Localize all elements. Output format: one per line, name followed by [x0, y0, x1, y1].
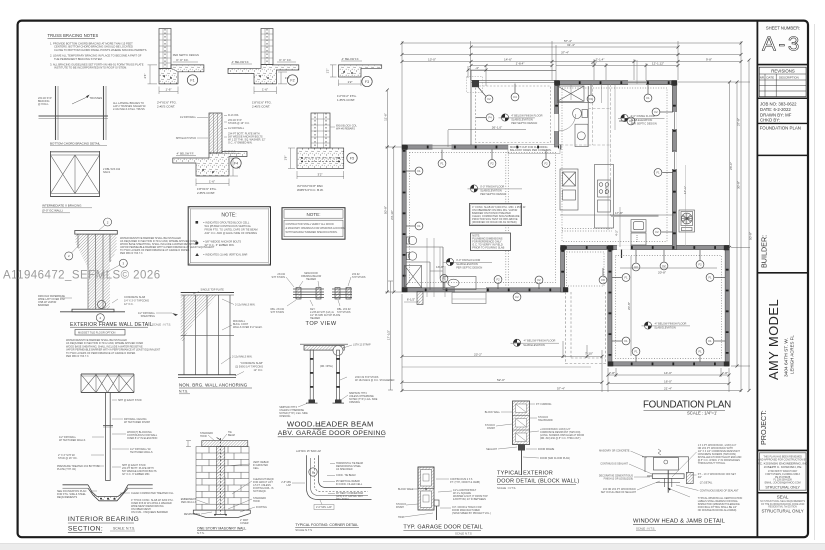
svg-text:PER SEPTIC DESIGN: PER SEPTIC DESIGN	[456, 266, 482, 270]
svg-text:= INDICATES (1) (#5) VERTICAL: = INDICATES (1) (#5) VERTICAL BAR	[203, 253, 248, 257]
svg-text:2 #5'S CONT.: 2 #5'S CONT.	[252, 105, 270, 109]
corner blocks	[402, 81, 729, 367]
svg-text:O' O" F.F.: O' O" F.F.	[176, 58, 189, 62]
svg-text:TEXTURED WALLS: TEXTURED WALLS	[130, 451, 153, 454]
svg-text:W/1 [#5 BAR CONTINUOUS VERTICA: W/1 [#5 BAR CONTINUOUS VERTICAL	[205, 224, 252, 228]
svg-text:MUDSET TILE FLOOR OPTION: MUDSET TILE FLOOR OPTION	[78, 331, 116, 335]
INTERIOR BEARING SECTION	[57, 374, 174, 533]
svg-text:HEADER: HEADER	[306, 278, 316, 281]
svg-text:SYP STUDS: SYP STUDS	[337, 311, 351, 314]
svg-text:0'-0" FINISH FLOOR: 0'-0" FINISH FLOOR	[631, 114, 655, 118]
right dimension lines	[678, 60, 750, 391]
svg-text:OF THE FLORIDA BUILDING CODE: OF THE FLORIDA BUILDING CODE 2020	[761, 503, 805, 506]
svg-text:W/#5'S 6"O.C. B.W.: W/#5'S 6"O.C. B.W.	[297, 188, 324, 192]
svg-text:A32" O.C. AND @ EACH SIDE OF O: A32" O.C. AND @ EACH SIDE OF OPENING	[205, 231, 258, 235]
svg-text:BLOCK WALL: BLOCK WALL	[485, 411, 501, 414]
svg-text:REVISIONS: REVISIONS	[771, 68, 795, 73]
svg-text:WOOD HEADER BEAM: WOOD HEADER BEAM	[287, 420, 374, 429]
svg-text:1'2": 1'2"	[348, 80, 353, 84]
svg-text:30'-8": 30'-8"	[736, 181, 740, 189]
svg-text:27'-8": 27'-8"	[736, 118, 740, 126]
svg-text:PER SEPTIC DESIGN: PER SEPTIC DESIGN	[511, 121, 537, 125]
svg-text:FINISH: FINISH	[396, 506, 404, 509]
svg-text:CLOSE TO BOTTOM CHORD PANEL PO: CLOSE TO BOTTOM CHORD PANEL POINTS WHERE…	[54, 48, 147, 52]
left dimension lines	[385, 90, 402, 292]
svg-text:37'-4": 37'-4"	[561, 50, 569, 54]
svg-text:RESPONDING: RESPONDING	[184, 513, 200, 516]
svg-text:2'-8": 2'-8"	[722, 371, 728, 375]
svg-text:23'-0": 23'-0"	[729, 162, 733, 170]
svg-text:SCALE : N.T.S.: SCALE : N.T.S.	[152, 323, 171, 327]
svg-text:PER SEPTIC DESIGN: PER SEPTIC DESIGN	[480, 192, 506, 196]
svg-text:COVER: COVER	[240, 522, 249, 525]
svg-text:SET IN FULL BED OF SEALANT: SET IN FULL BED OF SEALANT	[601, 491, 637, 494]
svg-text:23'-2": 23'-2"	[474, 352, 482, 356]
EXTERIOR FRAME WALL DETAIL	[38, 218, 215, 358]
dims left of wall	[186, 441, 225, 497]
svg-text:F3: F3	[365, 80, 369, 84]
svg-text:SLAB ELEVATION: SLAB ELEVATION	[523, 343, 545, 347]
svg-text:SEAL: SEAL	[777, 494, 789, 499]
svg-text:CONC. TIE BEAM: CONC. TIE BEAM	[336, 474, 355, 477]
svg-text:SLAB ELEVATION: SLAB ELEVATION	[456, 262, 478, 266]
svg-text:N.T.S.: N.T.S.	[179, 390, 188, 394]
svg-text:TRUSS BRACING NOTES: TRUSS BRACING NOTES	[48, 33, 99, 38]
svg-text:WITH MANUFACTURERED SPECIFICAT: WITH MANUFACTURERED SPECIFICATIONS.	[286, 231, 338, 234]
TRUSS BRACING NOTES	[48, 33, 148, 70]
svg-text:CONTRACTOR SHALL VERIFY ALL WO: CONTRACTOR SHALL VERIFY ALL WOOD	[286, 223, 334, 226]
interior dims	[430, 130, 717, 271]
svg-text:20'-8": 20'-8"	[627, 302, 631, 310]
svg-text:32" O.C. 6" EMBED MIN.: 32" O.C. 6" EMBED MIN.	[122, 473, 150, 476]
svg-text:PER FBC R 703.7.3: PER FBC R 703.7.3	[120, 252, 143, 255]
kitchen/east fixtures	[560, 165, 659, 246]
svg-text:DOOR DETAIL (BLOCK WALL): DOOR DETAIL (BLOCK WALL)	[497, 479, 579, 485]
porch outline	[471, 70, 556, 147]
bottom dimension tiers	[402, 294, 741, 392]
svg-text:11'-6": 11'-6"	[383, 113, 387, 121]
svg-text:O.C., 6" EMBED MIN.: O.C., 6" EMBED MIN.	[228, 142, 253, 145]
svg-text:THE PERMANENT BRACING SYSTEM.: THE PERMANENT BRACING SYSTEM.	[54, 57, 103, 61]
garage west wall	[608, 248, 612, 367]
svg-text:NOTE:: NOTE:	[306, 212, 320, 217]
svg-text:NR.: NR.	[760, 76, 765, 80]
svg-text:SCALE : 1/4"=1': SCALE : 1/4"=1'	[687, 411, 717, 416]
svg-text:13'-8": 13'-8"	[436, 265, 444, 269]
svg-text:A-3: A-3	[762, 33, 802, 56]
svg-text:MASONRY OR CONCRETE: MASONRY OR CONCRETE	[599, 450, 630, 453]
svg-text:THROUGHOUT TYPICAL: THROUGHOUT TYPICAL	[698, 462, 726, 465]
svg-text:INSTITUTE TO BE INCORPORATED I: INSTITUTE TO BE INCORPORATED INTO ROOF S…	[54, 66, 127, 70]
svg-text:TOP VIEW: TOP VIEW	[306, 321, 337, 327]
footing detail F4	[173, 113, 266, 195]
svg-text:F2: F2	[290, 79, 294, 83]
svg-text:B: B	[312, 470, 314, 474]
svg-text:SPH @ EACH STUD: SPH @ EACH STUD	[118, 399, 142, 402]
svg-text:REQUIREMENTS: REQUIREMENTS	[57, 496, 77, 499]
svg-text:BUILDER:: BUILDER:	[760, 235, 769, 268]
svg-text:STUD @ 16" OC.: STUD @ 16" OC.	[58, 457, 78, 460]
svg-text:MIN. STEEL: MIN. STEEL	[336, 498, 350, 501]
svg-text:AS SPECIFIED: AS SPECIFIED	[336, 468, 353, 471]
paper right scan line	[814, 24, 816, 540]
svg-text:SEALANT: SEALANT	[486, 448, 497, 451]
svg-text:FINISH: FINISH	[487, 427, 495, 430]
svg-text:AMY MODEL: AMY MODEL	[766, 299, 781, 380]
svg-text:SYP STUDS: SYP STUDS	[270, 311, 284, 314]
footing detail F2	[228, 29, 299, 109]
svg-text:1'8": 1'8"	[284, 156, 288, 161]
detail reference circles	[406, 85, 725, 362]
west wing south wall	[402, 288, 568, 293]
svg-text:TRIM: TRIM	[398, 516, 404, 519]
svg-text:SCALE N.T.S: SCALE N.T.S	[295, 528, 312, 532]
svg-text:& BOTTOM, 24" IN BETWEEN: & BOTTOM, 24" IN BETWEEN	[453, 498, 486, 501]
svg-text:PRIOR TO POURING SLAB: PRIOR TO POURING SLAB	[472, 246, 504, 250]
footing detail F3	[326, 57, 382, 102]
svg-text:-4" BELOW F.F.: -4" BELOW F.F.	[176, 152, 194, 156]
svg-text:NAILS: NAILS	[103, 171, 111, 174]
svg-text:ON 6 MIL. VISQUEEN BARRIER: ON 6 MIL. VISQUEEN BARRIER	[131, 511, 168, 514]
svg-text:P.T. - 1X 4" WOOD BUCK OFF SET: P.T. - 1X 4" WOOD BUCK OFF SET	[698, 473, 737, 476]
svg-text:50'-8": 50'-8"	[748, 232, 752, 240]
svg-text:24'-10": 24'-10"	[390, 210, 394, 220]
footing dashed insets	[410, 88, 722, 359]
TITLE BLOCK	[757, 21, 808, 538]
svg-text:FOUNDATION PLAN: FOUNDATION PLAN	[760, 126, 801, 131]
svg-text:F4: F4	[234, 162, 238, 166]
brick wall courses	[196, 447, 249, 511]
svg-text:PER SEPTIC DESIGN: PER SEPTIC DESIGN	[173, 53, 199, 57]
FOUNDATION PLAN	[383, 39, 752, 416]
west wing north wall	[402, 145, 561, 150]
svg-text:DATE: 6-2-2022: DATE: 6-2-2022	[760, 107, 791, 112]
svg-text:HEADER: HEADER	[310, 317, 320, 320]
svg-text:= 5/8" WEDGE ANCHOR BOLTS: = 5/8" WEDGE ANCHOR BOLTS	[203, 240, 241, 244]
WINDOW HEAD &amp; JAMB DETAIL	[599, 444, 743, 531]
svg-text:N.T.S.: N.T.S.	[197, 531, 205, 535]
svg-text:SYP STUDS: SYP STUDS	[271, 276, 285, 279]
svg-text:2-12d NAILS MIN.: 2-12d NAILS MIN.	[232, 356, 253, 359]
svg-text:1'-6": 1'-6"	[262, 88, 268, 92]
WOOD HEADER BEAM detail	[278, 344, 395, 437]
svg-text:(2") DETAIL: (2") DETAIL	[700, 482, 713, 485]
svg-text:F1: F1	[190, 79, 194, 83]
svg-text:P.T. FURRING: P.T. FURRING	[536, 403, 552, 406]
AC pad	[679, 165, 695, 246]
svg-text:14'-0": 14'-0"	[664, 371, 672, 375]
svg-text:OPENING: OPENING	[349, 401, 360, 404]
svg-text:W/ TEXTURED WALLS: W/ TEXTURED WALLS	[59, 439, 86, 442]
svg-text:3/4": 3/4"	[698, 476, 702, 479]
svg-text:SYP STUDS: SYP STUDS	[352, 276, 366, 279]
svg-text:1'2": 1'2"	[326, 69, 330, 74]
NOTE box 1	[188, 207, 270, 265]
svg-text:P.T. (TYP., FRONT & JAMB): P.T. (TYP., FRONT & JAMB)	[450, 481, 480, 484]
mudset note on wall	[508, 145, 560, 154]
svg-text:17'-1": 17'-1"	[683, 186, 687, 194]
svg-text:(DR. OPNL): (DR. OPNL)	[320, 365, 333, 368]
svg-text:PLATE (TYP. #2): PLATE (TYP. #2)	[57, 468, 76, 471]
svg-text:SECTION:: SECTION:	[68, 526, 103, 533]
svg-text:1'-6": 1'-6"	[166, 88, 172, 92]
svg-text:1 #5'S CONT.: 1 #5'S CONT.	[337, 98, 355, 102]
svg-text:BARRIER: BARRIER	[38, 304, 49, 307]
south wall east wing / garage north wall	[561, 245, 730, 258]
tie beam	[202, 441, 248, 447]
svg-text:SCALE : N.T.S.: SCALE : N.T.S.	[636, 527, 655, 531]
svg-text:DESCRIPTION: DESCRIPTION	[779, 76, 799, 80]
svg-text:17'-8": 17'-8"	[615, 211, 623, 215]
svg-text:F5: F5	[350, 157, 354, 161]
svg-text:FOOTING: FOOTING	[256, 506, 267, 509]
svg-text:STUDS @ 16" O.C.: STUDS @ 16" O.C.	[228, 122, 250, 125]
svg-text:FOUNDATION PLAN: FOUNDATION PLAN	[643, 400, 731, 411]
svg-text:TYPICAL FOOTING: CORNER DETAIL: TYPICAL FOOTING: CORNER DETAIL	[295, 523, 358, 527]
svg-text:16'-0": 16'-0"	[664, 380, 672, 384]
svg-text:4" BELOW FINISH FLOOR: 4" BELOW FINISH FLOOR	[511, 113, 542, 117]
svg-text:14'-6": 14'-6"	[504, 57, 512, 61]
svg-text:PROJECT:: PROJECT:	[759, 410, 768, 445]
svg-text:W/ TEXTURED FINISH: W/ TEXTURED FINISH	[124, 421, 150, 424]
svg-text:CELL: CELL	[253, 467, 260, 470]
title block left border	[756, 21, 758, 538]
svg-text:(MODIFIED OF ROAD OR AS NOTED): (MODIFIED OF ROAD OR AS NOTED)	[472, 220, 517, 224]
lateral bracing diagram	[39, 86, 109, 140]
svg-text:2-12d NAILS MIN.: 2-12d NAILS MIN.	[235, 304, 256, 307]
east wing west wall (at porch)	[554, 81, 576, 148]
svg-text:IN CONC. FILLED CELL: IN CONC. FILLED CELL	[336, 483, 363, 486]
svg-text:INTERIOR BEARING: INTERIOR BEARING	[68, 516, 139, 523]
note box 1 in plan	[470, 204, 522, 226]
svg-text:12" O.C.: 12" O.C.	[124, 303, 134, 306]
NON BRG WALL ANCHORING	[138, 289, 263, 394]
svg-text:2-16d NAILS AT EA. TRUSS: 2-16d NAILS AT EA. TRUSS	[113, 108, 145, 111]
svg-text:CONTINUOUS BEAD OF SEALANT: CONTINUOUS BEAD OF SEALANT	[700, 490, 739, 493]
svg-text:NON. BRG. WALL ANCHORING: NON. BRG. WALL ANCHORING	[179, 383, 248, 388]
svg-text:JOB NO: 383-0622: JOB NO: 383-0622	[760, 101, 797, 106]
svg-text:W/ 16d NAILS @ O.C. STAGGERED: W/ 16d NAILS @ O.C. STAGGERED	[355, 379, 395, 382]
svg-text:(DR. #10) #10 @ 8" O.C. THRU-O: (DR. #10) #10 @ 8" O.C. THRU-OUT)	[540, 437, 581, 440]
svg-text:4'-6": 4'-6"	[591, 62, 597, 66]
svg-text:COVER: COVER	[313, 428, 322, 431]
svg-text:= INDICATES GROUTED BLOCK CELL: = INDICATES GROUTED BLOCK CELL	[203, 221, 250, 225]
TOP VIEW detail	[270, 272, 365, 327]
svg-text:DOOR (W/R FLOOR PLAN): DOOR (W/R FLOOR PLAN)	[540, 457, 570, 460]
svg-text:2 #5'S CONT.: 2 #5'S CONT.	[197, 191, 215, 195]
TYPICAL EXTERIOR DOOR DETAIL	[485, 401, 584, 490]
svg-text:1'-6": 1'-6"	[209, 179, 215, 183]
svg-text:SHEET NUMBER:: SHEET NUMBER:	[766, 26, 800, 31]
footing detail F1	[143, 29, 204, 109]
ONE STORY MASONRY WALL	[181, 425, 322, 535]
svg-text:50'-8": 50'-8"	[383, 206, 387, 214]
east wing north wall	[555, 80, 677, 85]
svg-text:LEHIGH ACRES FL: LEHIGH ACRES FL	[790, 335, 795, 374]
top dimension tiers	[402, 41, 741, 392]
svg-text:BEAM: BEAM	[228, 434, 235, 437]
interior drop dim lines	[571, 60, 637, 230]
svg-text:SLAB ELEVATION: SLAB ELEVATION	[511, 118, 533, 122]
svg-text:SLAB ELEVATION: SLAB ELEVATION	[480, 189, 502, 193]
svg-text:1/2 DRYWALL: 1/2 DRYWALL	[228, 127, 245, 130]
svg-text:-4" BELOW FINISH FLOOR: -4" BELOW FINISH FLOOR	[654, 321, 686, 325]
svg-text:HALFBOARD: HALFBOARD	[538, 419, 553, 422]
svg-text:ABV. GARAGE DOOR OPENING: ABV. GARAGE DOOR OPENING	[278, 430, 387, 437]
svg-text:STRUCTURAL ONLY: STRUCTURAL ONLY	[761, 509, 803, 514]
grouted cell	[216, 447, 224, 511]
svg-text:LAP MIN. 25" BAR LAP: LAP MIN. 25" BAR LAP	[296, 450, 322, 453]
svg-text:CONTINUOUS SEALANT: CONTINUOUS SEALANT	[600, 463, 628, 466]
svg-text:CLEAN COMPACTED TREATED FILL: CLEAN COMPACTED TREATED FILL	[131, 492, 174, 495]
footing detail F5	[284, 113, 358, 192]
svg-text:21'-4": 21'-4"	[664, 387, 672, 391]
plumbing dim leaders	[427, 238, 445, 297]
svg-text:4'-2": 4'-2"	[615, 230, 619, 236]
footing	[193, 510, 250, 517]
svg-text:LSTA 12 STRAP: LSTA 12 STRAP	[353, 344, 371, 347]
east wing east wall	[672, 81, 677, 250]
svg-text:FROM FTG. TO LINTEL CAPS OR TI: FROM FTG. TO LINTEL CAPS OR TIE BEAM	[205, 228, 258, 232]
svg-text:13'-0": 13'-0"	[428, 57, 436, 61]
NOTE box 2	[282, 208, 345, 240]
X bracing diagram	[51, 151, 100, 197]
svg-text:SHEATHING: SHEATHING	[141, 315, 155, 318]
svg-text:DATE: DATE	[767, 76, 775, 80]
svg-text:17'-1/2": 17'-1/2"	[387, 330, 391, 340]
svg-text:1/2 DRYWALL: 1/2 DRYWALL	[180, 116, 197, 119]
svg-text:LAP: LAP	[286, 484, 291, 487]
svg-text:HOOK: HOOK	[200, 435, 207, 438]
paper bottom edge strip	[0, 544, 825, 550]
wall anchor ticks	[404, 83, 728, 365]
svg-text:TYPICAL EXTERIOR: TYPICAL EXTERIOR	[497, 471, 553, 477]
svg-text:SPH EACH STUD: SPH EACH STUD	[176, 137, 196, 140]
stoop below sliding door	[452, 293, 486, 304]
interior partitions dashed	[556, 84, 611, 216]
lanai dashed	[566, 292, 606, 364]
svg-text:R-13 INS.: R-13 INS.	[228, 114, 239, 117]
porch footing dashed	[476, 86, 551, 143]
svg-text:W/4 #5 REBARS: W/4 #5 REBARS	[336, 128, 355, 131]
svg-text:9'-8": 9'-8"	[706, 57, 712, 61]
nook west wall	[561, 248, 565, 293]
svg-text:& MASONRY OPENINGS FOR WINDOWS: & MASONRY OPENINGS FOR WINDOWS & DOORS	[286, 227, 345, 230]
svg-text:BALCONY DRAIN PER CODE MIN.: BALCONY DRAIN PER CODE MIN.	[510, 148, 552, 152]
svg-text:BLOCK WALL: BLOCK WALL	[398, 488, 414, 491]
svg-text:JOSEPH C. KOSINSKI, PE: JOSEPH C. KOSINSKI, PE	[764, 465, 802, 469]
svg-text:HOOK: HOOK	[253, 500, 260, 503]
laundry / bath2 top	[557, 86, 588, 147]
svg-text:A11946472_SEFMLS© 2026: A11946472_SEFMLS© 2026	[3, 270, 161, 282]
svg-text:TRUSSES: TRUSSES	[90, 96, 103, 100]
svg-text:EMAIL: JCKOSIN@YAHOO.COM: EMAIL: JCKOSIN@YAHOO.COM	[765, 481, 801, 484]
slab + footing	[63, 485, 153, 501]
svg-text:NO STRUCTURAL SEAL REQUIREMENT: NO STRUCTURAL SEAL REQUIREMENTS	[760, 500, 805, 503]
tick marks top	[401, 42, 743, 72]
extension lines	[401, 41, 403, 145]
svg-text:SINGLE TOP PLATE: SINGLE TOP PLATE	[201, 289, 225, 292]
porch column	[472, 80, 479, 87]
svg-text:INTERMEDIATE X BRACING: INTERMEDIATE X BRACING	[42, 204, 82, 208]
svg-text:STRUCTURAL ONLY: STRUCTURAL ONLY	[765, 486, 800, 490]
svg-text:CHKD BY:: CHKD BY:	[760, 117, 780, 122]
garage south wall	[608, 362, 730, 366]
svg-text:12'-1.12": 12'-1.12"	[652, 62, 664, 66]
svg-text:2 #5'S CONT.: 2 #5'S CONT.	[157, 105, 175, 109]
svg-text:ONE STORY MASONRY WALL: ONE STORY MASONRY WALL	[197, 527, 246, 531]
bath SW fixtures	[405, 236, 477, 290]
svg-text:1'-8.4": 1'-8.4"	[516, 62, 525, 66]
svg-text:PER FBC R 703.7.3: PER FBC R 703.7.3	[66, 355, 89, 358]
masonry jamb (lower)	[418, 467, 434, 510]
svg-text:2'-8": 2'-8"	[609, 371, 615, 375]
svg-text:SLAB ELEVATION: SLAB ELEVATION	[654, 326, 676, 330]
TYPICAL FOOTING CORNER DETAIL	[281, 450, 371, 532]
svg-text:NOTE:: NOTE:	[221, 213, 236, 219]
svg-text:(HAND SPEED BY PROJECT VOL.): (HAND SPEED BY PROJECT VOL.)	[452, 512, 491, 515]
svg-text:DOOR FRAME: DOOR FRAME	[538, 448, 555, 451]
svg-text:OPENING: OPENING	[279, 415, 290, 418]
svg-text:WINDOW HEAD & JAMB DETAIL: WINDOW HEAD & JAMB DETAIL	[633, 519, 726, 525]
svg-text:-4" BELOW F.F.: -4" BELOW F.F.	[231, 60, 249, 64]
svg-text:(0'-0" GC WALL): (0'-0" GC WALL)	[42, 209, 63, 213]
svg-text:7'-10": 7'-10"	[585, 351, 593, 355]
svg-text:12" O.C.: 12" O.C.	[253, 369, 263, 372]
svg-text:SCALE N.T.S: SCALE N.T.S	[455, 532, 472, 536]
svg-text:26'-1.0": 26'-1.0"	[492, 126, 502, 130]
svg-text:OVER 8'-0" IN ELEVATION: OVER 8'-0" IN ELEVATION	[127, 437, 158, 440]
svg-text:2'-0" MIN. LAP: 2'-0" MIN. LAP	[316, 506, 332, 509]
svg-text:SCALE : N.T.S.: SCALE : N.T.S.	[497, 486, 516, 490]
svg-text:-4" BELOW FINISH FLOOR: -4" BELOW FINISH FLOOR	[523, 339, 555, 343]
svg-text:PER 2014 A.3: PER 2014 A.3	[181, 501, 197, 504]
svg-text:0'-0" FINISH FLOOR: 0'-0" FINISH FLOOR	[480, 184, 504, 188]
svg-text:WALLS OVER 9'-0" ELEV.: WALLS OVER 9'-0" ELEV.	[233, 326, 263, 329]
svg-text:@ 6'OA L: @ 6'OA L	[38, 103, 49, 106]
svg-text:8'-1/2": 8'-1/2"	[604, 186, 608, 194]
svg-text:57'-4": 57'-4"	[557, 387, 565, 391]
svg-text:0'-0" FINISH FLOOR: 0'-0" FINISH FLOOR	[456, 258, 480, 262]
note box 2 in plan	[471, 233, 511, 251]
svg-text:FINISH (3 OR LESS)(2026): FINISH (3 OR LESS)(2026)	[604, 478, 634, 481]
porch detail circles	[476, 84, 519, 122]
west wing west wall	[402, 145, 406, 292]
svg-text:-4" BELOW F.F.: -4" BELOW F.F.	[341, 57, 359, 61]
svg-text:20'-8": 20'-8"	[658, 271, 666, 275]
svg-text:31'-4": 31'-4"	[567, 43, 575, 47]
svg-text:-4": -4"	[475, 66, 479, 70]
svg-text:O' O" F.F.: O' O" F.F.	[279, 58, 292, 62]
svg-text:3'2": 3'2"	[318, 172, 323, 176]
revisions	[759, 67, 806, 97]
garage east wall	[725, 245, 729, 366]
engineer box	[759, 453, 806, 490]
svg-text:EXTERIOR FRAME WALL DETAIL: EXTERIOR FRAME WALL DETAIL	[70, 322, 153, 328]
svg-text:SCALE: N.T.S.: SCALE: N.T.S.	[113, 527, 135, 531]
svg-text:NOT REQD.: NOT REQD.	[253, 490, 267, 493]
svg-text:TYP. GARAGE DOOR DETAIL: TYP. GARAGE DOOR DETAIL	[403, 525, 483, 531]
svg-text:52'-0": 52'-0"	[497, 378, 505, 382]
svg-text:2'4": 2'4"	[143, 74, 147, 79]
svg-text:BOTTOM CHORD BRACING DETAIL: BOTTOM CHORD BRACING DETAIL	[50, 142, 101, 146]
svg-text:NO DOUBLE BUCKING ALLOWED): NO DOUBLE BUCKING ALLOWED)	[698, 509, 737, 512]
svg-text:6'-1/2": 6'-1/2"	[407, 298, 415, 302]
finish floor symbols	[444, 113, 691, 347]
TYP GARAGE DOOR DETAIL	[387, 281, 492, 536]
